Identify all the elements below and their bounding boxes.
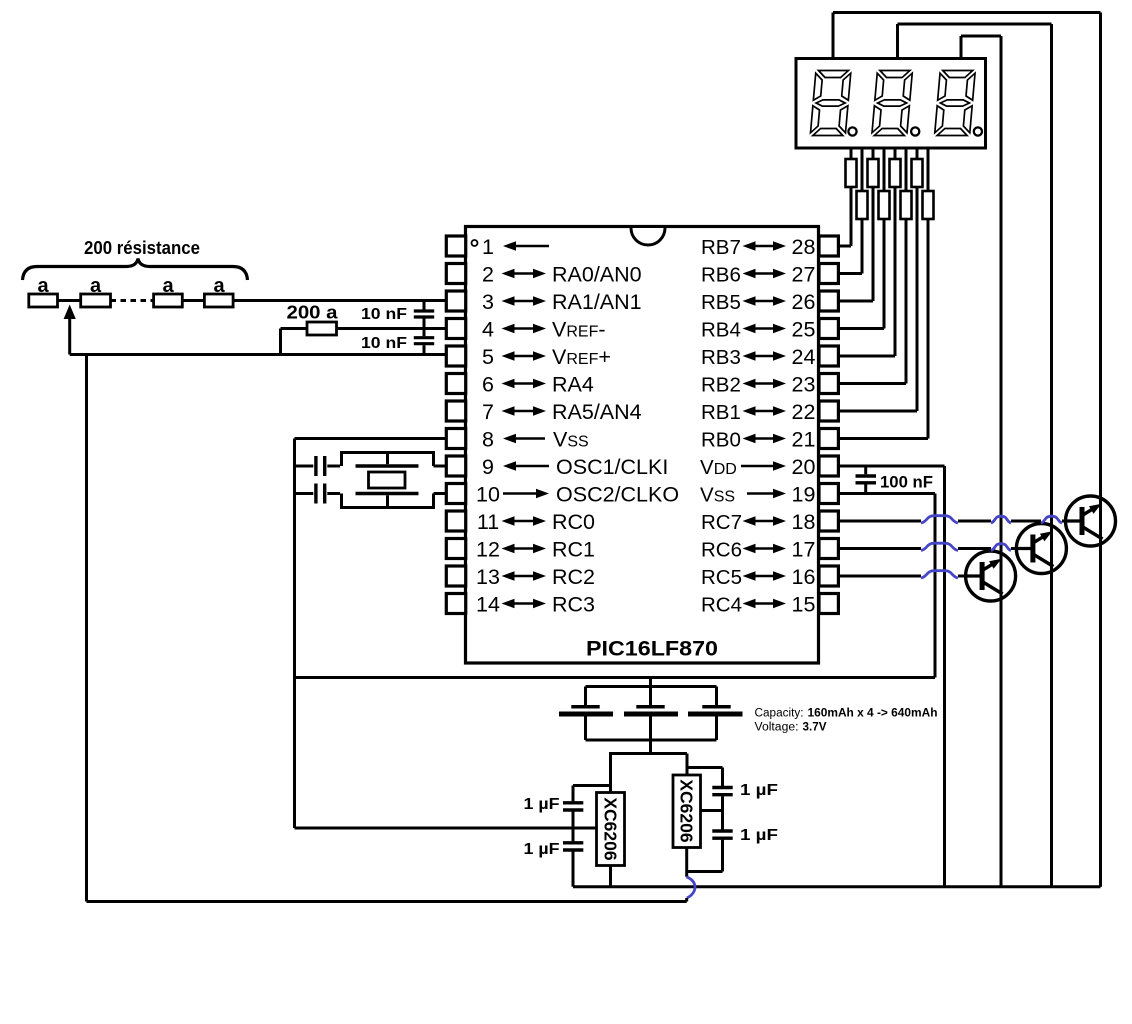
svg-text:1 µF: 1 µF — [524, 796, 560, 813]
svg-text:12: 12 — [476, 538, 500, 562]
svg-text:RC0: RC0 — [552, 510, 595, 534]
svg-text:100 nF: 100 nF — [880, 474, 933, 492]
svg-text:20: 20 — [792, 455, 816, 479]
svg-text:RB1: RB1 — [701, 401, 741, 424]
svg-text:RB4: RB4 — [701, 319, 741, 342]
svg-text:RC7: RC7 — [701, 511, 742, 534]
svg-text:RC4: RC4 — [701, 594, 742, 617]
svg-text:RA1/AN1: RA1/AN1 — [552, 290, 642, 314]
svg-text:19: 19 — [792, 483, 816, 507]
svg-text:24: 24 — [792, 345, 816, 369]
svg-text:XC6206: XC6206 — [601, 797, 621, 861]
svg-text:1 µF: 1 µF — [740, 827, 778, 844]
svg-text:15: 15 — [792, 593, 816, 617]
svg-text:10 nF: 10 nF — [361, 335, 407, 352]
svg-text:9: 9 — [482, 455, 494, 479]
svg-text:13: 13 — [476, 565, 500, 589]
svg-text:RB7: RB7 — [701, 236, 741, 259]
svg-text:RC1: RC1 — [552, 538, 595, 562]
svg-text:RB0: RB0 — [701, 429, 741, 452]
svg-text:6: 6 — [482, 373, 494, 397]
svg-text:Capacity:: Capacity: — [755, 708, 804, 720]
svg-text:RB2: RB2 — [701, 374, 741, 397]
svg-text:7: 7 — [482, 400, 494, 424]
svg-text:23: 23 — [792, 373, 816, 397]
svg-text:25: 25 — [792, 318, 816, 342]
svg-text:18: 18 — [792, 510, 816, 534]
svg-text:RA0/AN0: RA0/AN0 — [552, 263, 642, 287]
svg-text:Voltage:: Voltage: — [755, 722, 799, 734]
svg-text:5: 5 — [482, 345, 494, 369]
svg-text:RC3: RC3 — [552, 593, 595, 617]
svg-text:RA4: RA4 — [552, 373, 594, 397]
svg-text:10 nF: 10 nF — [361, 306, 407, 323]
svg-text:200 a: 200 a — [287, 303, 339, 323]
svg-text:OSC2/CLKO: OSC2/CLKO — [556, 483, 679, 507]
svg-text:17: 17 — [792, 538, 816, 562]
svg-text:1 µF: 1 µF — [524, 841, 560, 858]
svg-text:3.7V: 3.7V — [803, 722, 827, 734]
svg-text:28: 28 — [792, 235, 816, 259]
svg-text:RA5/AN4: RA5/AN4 — [552, 400, 642, 424]
svg-text:RC5: RC5 — [701, 566, 742, 589]
svg-text:200 résistance: 200 résistance — [84, 238, 200, 258]
svg-text:4: 4 — [482, 318, 494, 342]
svg-text:21: 21 — [792, 428, 816, 452]
svg-text:14: 14 — [476, 593, 500, 617]
svg-text:8: 8 — [482, 428, 494, 452]
svg-text:11: 11 — [477, 510, 499, 534]
svg-text:RC6: RC6 — [701, 539, 742, 562]
svg-text:26: 26 — [792, 290, 816, 314]
svg-text:1: 1 — [482, 235, 494, 259]
svg-text:10: 10 — [476, 483, 500, 507]
svg-text:160mAh x 4 -> 640mAh: 160mAh x 4 -> 640mAh — [808, 708, 938, 720]
svg-text:1 µF: 1 µF — [740, 782, 778, 799]
svg-text:16: 16 — [792, 565, 816, 589]
svg-text:RB3: RB3 — [701, 346, 741, 369]
svg-text:3: 3 — [482, 290, 494, 314]
svg-text:OSC1/CLKI: OSC1/CLKI — [556, 455, 668, 479]
svg-text:27: 27 — [792, 263, 816, 287]
svg-text:XC6206: XC6206 — [677, 779, 697, 843]
svg-text:RB5: RB5 — [701, 291, 741, 314]
svg-text:RC2: RC2 — [552, 565, 595, 589]
svg-text:RB6: RB6 — [701, 264, 741, 287]
svg-text:2: 2 — [482, 263, 494, 287]
svg-text:PIC16LF870: PIC16LF870 — [586, 638, 718, 661]
svg-text:22: 22 — [792, 400, 816, 424]
